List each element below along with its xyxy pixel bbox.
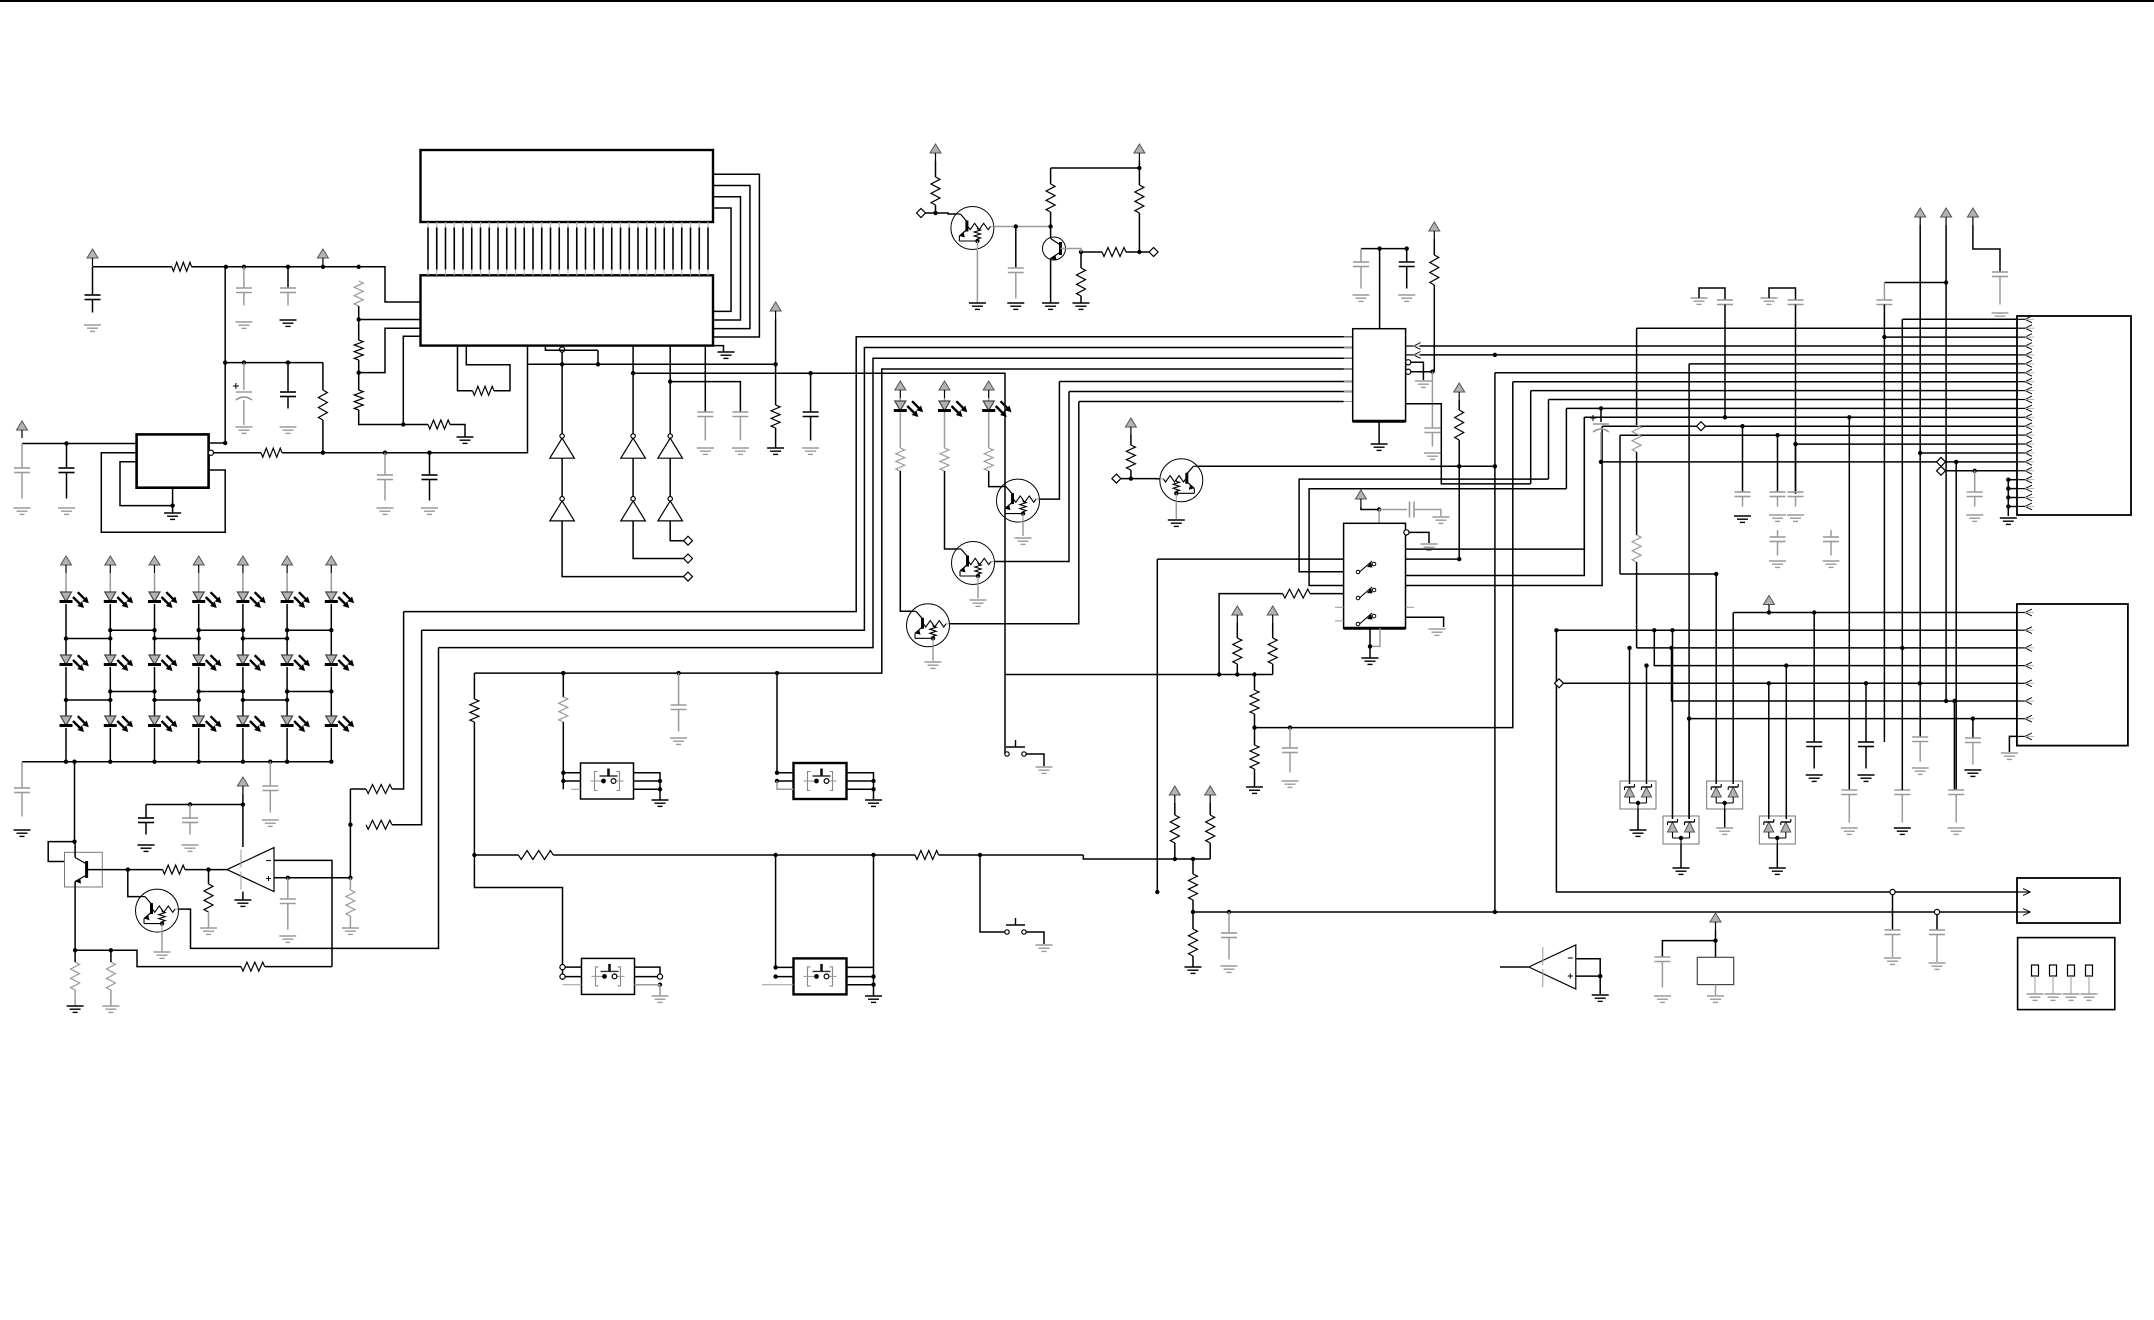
pin J1-2 (2017, 325, 2034, 332)
junction lc2 (152, 689, 156, 693)
pin circle opto4a (560, 965, 565, 970)
ground G25 (200, 928, 217, 934)
pin bubble reg (208, 450, 213, 455)
junction n18a (1627, 646, 1631, 650)
ground G3 (280, 320, 297, 326)
wire j2 l3 (1637, 647, 2017, 649)
junction n7c (286, 876, 290, 880)
wire divider top (1254, 675, 1256, 691)
wire r13 left (1081, 251, 1102, 253)
pin J1-1 (2017, 316, 2034, 323)
wire pb1 bus (1005, 674, 1273, 676)
resistor R5 (428, 420, 450, 429)
wire u8 vcc (1361, 507, 1379, 510)
junction pGa (1740, 424, 1744, 428)
wire c13 lead (1015, 227, 1017, 269)
resistor R8 (473, 386, 495, 395)
ground G38 (1415, 381, 1432, 387)
wire ledcol7 d (330, 728, 332, 762)
junction n3b (223, 441, 227, 445)
ground G63 (2000, 518, 2017, 524)
junction n7d (348, 876, 352, 880)
junction n11e (1235, 672, 1239, 676)
pin J1-22 (2017, 503, 2034, 510)
LED LD18 (192, 716, 221, 732)
wire buf out 3 (670, 521, 683, 541)
power flag VCC12 (1232, 606, 1243, 623)
junction n3e (427, 451, 431, 455)
wire j1 p1 (1902, 318, 2017, 320)
wire j1 gpin0 (2008, 479, 2017, 481)
ground G21 (14, 830, 31, 836)
wire irled2 a (944, 398, 946, 401)
junction n10a (1129, 476, 1133, 480)
wire o3 q2 (847, 976, 874, 978)
wire ledcol6 d (286, 728, 288, 762)
wire c25 lead (1228, 912, 1230, 933)
junction n18b (1644, 663, 1648, 667)
LED LD19 (236, 716, 265, 732)
wire j2 l2 (1556, 629, 2017, 631)
ground G69 (1964, 770, 1981, 776)
wire r13 right (1126, 251, 1139, 253)
junction lc1 (108, 689, 112, 693)
ground G70 (1841, 828, 1858, 834)
wire r16 leads (208, 870, 210, 884)
ground G41 (1432, 517, 1449, 523)
capacitor C3 (280, 288, 296, 306)
wire R7 leads (322, 363, 324, 390)
wire q1 emitter (976, 249, 978, 303)
resistor R27 (1430, 255, 1439, 285)
junction n3a (64, 441, 68, 445)
wire C6 lead (243, 363, 245, 390)
wire c44 gnd (1892, 935, 1894, 958)
junction n13c (1191, 910, 1195, 914)
pin J2-3 (2017, 645, 2034, 652)
ground G68 (1912, 768, 1929, 774)
wire riser F (1584, 416, 2017, 418)
capacitor C42 (1894, 790, 1910, 823)
power flag VCC8 (1429, 222, 1440, 239)
wire j1 p15 (1796, 443, 2018, 445)
wire v1866 (1865, 683, 1867, 742)
ground G61 (1787, 515, 1804, 521)
junction o1c (658, 779, 662, 783)
ground G5 (14, 508, 31, 514)
junction n3c (321, 451, 325, 455)
wire photo coll (74, 842, 76, 858)
wire led bottom bus (22, 761, 331, 763)
resistor R42 (1632, 425, 1641, 452)
wire pullup (775, 319, 777, 405)
junction n19b (1713, 938, 1717, 942)
wire q1 in (926, 213, 957, 214)
wire v1946 (1945, 225, 1947, 701)
buffer U5b (621, 497, 646, 521)
wire u13 minus (1576, 959, 1600, 976)
wire o2 p2 (777, 780, 794, 782)
wire r11 top (1050, 168, 1052, 184)
pin stub o4 (563, 984, 582, 986)
op-amp U13 (1529, 945, 1576, 989)
ground G22 (262, 820, 279, 826)
junction n16g (1599, 460, 1603, 464)
ground G31 (154, 952, 171, 958)
contact A1-4 (2081, 965, 2098, 1000)
ground G28 (234, 900, 251, 906)
wire o3 p1 (776, 966, 794, 968)
wire ledcol6 a (286, 573, 288, 592)
pin J1-14 (2017, 432, 2034, 439)
wire riser Dv (1548, 400, 1550, 480)
LED LD12 (236, 655, 265, 671)
wire u8 q3 (1406, 426, 1603, 585)
wire buf1 in (561, 352, 563, 434)
junction la4 (241, 628, 245, 632)
junction n4c (668, 379, 672, 383)
wire q2 coll (1050, 227, 1052, 239)
resistor R3 (354, 340, 363, 360)
ground G37 (1398, 295, 1415, 301)
wire o4 q1 (635, 967, 661, 974)
junction o1b (561, 779, 565, 783)
wire j1 l15a (1601, 461, 1937, 463)
LCD segment pin bus (428, 222, 708, 275)
pin J1-10 (2017, 396, 2034, 403)
wire osc hook (1662, 941, 1715, 957)
wire u8 q2 (1406, 417, 1585, 575)
junction lc6 (329, 689, 333, 693)
wire c20 lead (1406, 249, 1408, 262)
junction n1d (357, 265, 361, 269)
wire ledcol3 d (154, 728, 156, 762)
pin J1-18 (2017, 467, 2034, 474)
ground G46 (1282, 781, 1299, 787)
wire ledrowC 34 (199, 691, 243, 693)
ground G4 (457, 437, 474, 443)
junction n12c (978, 853, 982, 857)
junction n2c (401, 422, 405, 426)
ground G9 (377, 508, 394, 514)
junction n11c (1155, 890, 1159, 894)
wire z1 gnd (1637, 809, 1639, 830)
junction n1c (286, 265, 290, 269)
junction la6 (329, 628, 333, 632)
wire r20 top (110, 950, 112, 962)
wire c31 drop (1777, 435, 1779, 492)
wire opto rail a (474, 854, 518, 856)
junction n17l (1669, 646, 1673, 650)
wire r22 right (392, 630, 422, 825)
junction p6d (1687, 716, 1691, 720)
wire z3 p2 (1688, 719, 1690, 819)
pin J1-16 (2017, 450, 2034, 457)
wire C1 lead (92, 267, 94, 295)
wire osc loop a (458, 346, 473, 391)
junction lb4 (241, 636, 245, 640)
resistor R12 (1135, 185, 1144, 213)
ground G12 (718, 352, 735, 358)
pin J1-11 (2017, 405, 2034, 412)
wire photo emit (74, 882, 76, 951)
junction n2b (357, 370, 361, 374)
ground G45 (1246, 787, 1263, 793)
wire r17 top (349, 878, 351, 890)
ground G53 (1036, 945, 1053, 951)
wire j1 l15 (1946, 461, 2018, 463)
resistor R20 (106, 962, 115, 990)
pin stub o1 (571, 788, 581, 790)
capacitor C41 (1841, 790, 1857, 823)
pin J1-12 (2017, 414, 2034, 421)
wire buf mid 1 (561, 458, 563, 496)
ground G24 (182, 845, 199, 851)
pin J3-2 (2017, 909, 2031, 916)
ground G2 (235, 322, 252, 328)
junction n11h (1288, 725, 1292, 729)
junction o1d (658, 787, 662, 791)
junction n17d (1784, 663, 1788, 667)
wire r15 right (185, 869, 209, 871)
wire R7 low (322, 420, 324, 453)
transistor Q8 (1160, 459, 1203, 502)
junction n3i (170, 503, 174, 507)
junction n1b (242, 265, 246, 269)
wire v1814 (1813, 613, 1815, 743)
wire bus LED1 (404, 337, 1353, 612)
power flag VCC1 (87, 249, 98, 266)
wire opamp caps rail (146, 804, 243, 806)
wire ledrowA 34 (199, 629, 243, 631)
wire LCD loop 2 (713, 186, 750, 329)
wire cap link (670, 382, 740, 412)
ground G42 (1421, 544, 1438, 550)
ground G67 (1858, 775, 1875, 781)
power flag VCC19 (1764, 596, 1775, 613)
wire riser G2 (1706, 425, 2018, 427)
wire u8 gnd (1369, 628, 1371, 658)
wire bus LED4 (474, 369, 1352, 673)
ground G11 (164, 513, 181, 519)
junction o3b (773, 974, 777, 978)
wire ledcol2 a (109, 573, 111, 592)
wire opto rail d (980, 854, 1083, 856)
ground G62 (1966, 515, 1983, 521)
power flag VCC6 (1134, 144, 1145, 161)
wire C8 lead (384, 453, 386, 475)
ground G79 (1592, 995, 1609, 1001)
wire v1920 (1919, 225, 1921, 737)
junction n5c (1048, 224, 1052, 228)
wire ledcol1 b (65, 604, 67, 655)
wire bus RET2 (1069, 391, 1353, 393)
wire ledcol2 c (109, 667, 111, 716)
wire ledcol7 a (330, 573, 332, 592)
ground G51 (652, 996, 669, 1002)
wire r41 gnd (1192, 956, 1194, 967)
wire j1 l16 (1946, 470, 2018, 472)
connector J1 (2017, 316, 2131, 515)
wire r14 leads (1080, 252, 1082, 268)
ground G44 (1429, 629, 1446, 635)
wire q7 base (949, 402, 1078, 624)
power flag VCC-M1 (895, 381, 906, 398)
wire irled2 b (944, 412, 946, 448)
wire R9 gnd (775, 428, 777, 448)
pin circle TP2 (1890, 889, 1895, 894)
junction n10b (1457, 464, 1461, 468)
junction n7e (73, 948, 77, 952)
ground G76 (1769, 868, 1786, 874)
wire LCD pin RS (403, 336, 420, 424)
junction lbus66 (64, 760, 68, 764)
resistor R17 (346, 890, 355, 916)
wire o2 p2b (777, 781, 794, 789)
junction o1a (561, 771, 565, 775)
wire q4 emitter (161, 932, 163, 952)
ground G80 (1654, 996, 1671, 1002)
wire osc loop b (466, 346, 510, 391)
wire c18 lead (287, 878, 289, 899)
wire hook1 down (1724, 305, 1726, 418)
resistor R15 (163, 865, 185, 874)
wire LCD com stub (713, 346, 724, 352)
wire buf mid 3 (669, 458, 671, 496)
junction n12f (775, 671, 779, 675)
wire ledcol4 c (198, 667, 200, 716)
wire ledcol3 b (154, 604, 156, 655)
junction gg2 (2006, 495, 2010, 499)
wire u8 q4 (1406, 617, 1444, 627)
wire div2 mid (1192, 900, 1194, 929)
wire q4 base in (128, 870, 141, 897)
wire j2 l6 (1672, 648, 2018, 701)
wire ledcol1 d (65, 728, 67, 762)
wire riser H (1620, 434, 2017, 436)
ground G55 (1221, 966, 1238, 972)
ground G59 (1734, 516, 1751, 522)
ground G10 (421, 508, 438, 514)
ground G7 (235, 427, 252, 433)
wire c16 lead (145, 805, 147, 819)
wire vcc8 stem (1433, 239, 1435, 255)
wire ledcol6 c (286, 667, 288, 716)
wire r21 left (350, 788, 366, 790)
wire buf2 in (632, 346, 634, 434)
wire vrail mid (224, 267, 226, 443)
wire irled3 a (988, 398, 990, 401)
wire u13 plus (1576, 975, 1600, 977)
capacitor C21 (1424, 428, 1440, 447)
wire c47 low (1600, 432, 1602, 462)
wire R4 bottom (359, 410, 428, 425)
wire bus LED2 (422, 348, 1353, 631)
ground G81 (1707, 996, 1724, 1002)
pin stubs U8R (1406, 549, 1415, 617)
wire r38 bot (1174, 843, 1176, 859)
switch SW-c (1356, 613, 1376, 626)
transistor Q6 (952, 542, 995, 585)
wire vcc6 stem (1138, 161, 1140, 185)
wire opto3 feed (775, 855, 777, 968)
wire q1 coll out (994, 226, 1051, 228)
junction n8a (472, 853, 476, 857)
wire C6 low (243, 400, 245, 425)
wire u8 p3 loop (1309, 489, 1566, 586)
junction n10d (1457, 557, 1461, 561)
junction n6a (268, 760, 272, 764)
wire c33 drop (1848, 417, 1850, 790)
power flag VCC20 (1710, 913, 1721, 930)
ground G33 (970, 600, 987, 606)
ground G32 (1015, 538, 1032, 544)
capacitor C31 (1770, 492, 1786, 507)
transistor Q2 (1043, 237, 1066, 260)
module A1 (2018, 938, 2115, 1010)
wire lcd jog (545, 346, 598, 351)
connector J2 (2017, 604, 2128, 746)
ground G75 (1673, 868, 1690, 874)
ground G13 (697, 448, 714, 454)
capacitor C38 (1858, 742, 1874, 769)
resistor R24 (896, 448, 905, 471)
wire u8 p1r (1406, 558, 1460, 560)
capacitor C30 (1735, 492, 1751, 507)
wire u7 out3 (1406, 404, 1531, 484)
junction n15a (1793, 442, 1797, 446)
LCD controller U3 (421, 275, 714, 345)
ground G15 (767, 448, 784, 454)
wire o1 p1 (563, 772, 580, 774)
ground G58 (1992, 313, 2009, 319)
capacitor C18 (280, 899, 296, 930)
wire q7 emit (932, 646, 934, 660)
wire r21 right (392, 612, 404, 789)
capacitor C46 (1654, 957, 1670, 988)
pin bubble u8 (1404, 530, 1409, 535)
resistor R38 (1170, 815, 1179, 843)
pin circle TP3 (1934, 909, 1939, 914)
wire c36 stub (1830, 530, 1832, 537)
junction n7b (206, 867, 210, 871)
wire fb path (75, 950, 241, 966)
junction n13b (1191, 857, 1195, 861)
wire z4 p1 (1768, 683, 1770, 819)
resistor R41 (1189, 929, 1198, 956)
wire vout rail (282, 346, 528, 453)
junction lbus287.1 (285, 760, 289, 764)
wire bus RET1 (1059, 381, 1352, 383)
wire LCD pin E (359, 319, 421, 321)
junction n5a (933, 211, 937, 215)
power flag VCC-L1 (61, 556, 72, 573)
ground G57 (1761, 298, 1778, 304)
capacitor C8 (377, 475, 393, 501)
wire u7 out2 (1420, 354, 2017, 356)
wire riser D (1549, 399, 2018, 401)
wire pb2 drop (980, 855, 1005, 932)
junction n14a (1714, 572, 1718, 576)
LED LD15 (60, 716, 89, 732)
wire riser Hv (1619, 435, 1621, 574)
capacitor C44 (1885, 930, 1901, 935)
ground G73 (1630, 830, 1647, 836)
wire o2 q1 (847, 773, 874, 800)
wire r42 link (1636, 452, 1638, 535)
wire opto drop (473, 673, 475, 699)
wire riser Fv (1583, 417, 1585, 549)
